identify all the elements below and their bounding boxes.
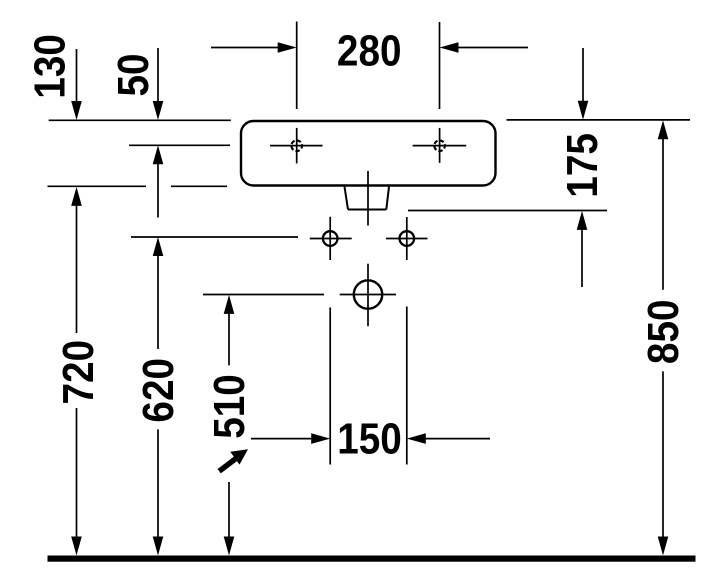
- reference line D (fixing hole level): [131, 236, 298, 238]
- arrowhead 620 down at floor: [153, 537, 164, 556]
- svg-text:130: 130: [24, 34, 74, 99]
- tap hole right crosshair vertical: [439, 128, 441, 163]
- arrowhead 130 down at line A: [71, 101, 82, 120]
- tap hole left crosshair vertical: [296, 128, 298, 163]
- dim 850 line lower part: [662, 371, 664, 538]
- dim 510 line lower part: [228, 482, 230, 539]
- svg-text:50: 50: [107, 53, 157, 96]
- dim 720 line lower part: [76, 408, 78, 539]
- dim 280 arrow tail left: [211, 47, 280, 49]
- fixing hole left crosshair vertical: [329, 217, 331, 260]
- arrowhead 175 down at line A right: [578, 101, 589, 120]
- drain crosshair vertical: [367, 264, 369, 327]
- dim 175 arrow shaft bottom: [581, 228, 583, 287]
- arrowhead 280 right at left extension: [278, 42, 297, 53]
- arrowhead 720 up at line C: [71, 187, 82, 206]
- reference line A right (basin top level): [507, 119, 691, 121]
- basin outline: [241, 121, 496, 186]
- svg-text:620: 620: [133, 358, 183, 423]
- arrowhead 510 down at floor: [224, 537, 235, 556]
- arrowhead 175 up at line F: [577, 211, 588, 230]
- dim 50 arrow shaft bottom: [157, 162, 159, 218]
- dim 280 arrow tail right: [456, 47, 528, 49]
- reference line A left (basin top level): [49, 119, 231, 121]
- fixing hole left crosshair horizontal: [310, 238, 352, 240]
- tap hole left dashed circle: [291, 140, 302, 151]
- dim 150 extension line left: [329, 308, 331, 465]
- drain circle: [354, 280, 382, 308]
- arrowhead 150 left at right extension: [407, 433, 426, 444]
- svg-text:175: 175: [556, 133, 606, 198]
- overflow spout center line: [367, 171, 369, 226]
- overflow spout left side: [345, 187, 349, 210]
- overflow spout bottom edge: [348, 209, 386, 211]
- reference line F (overflow bottom level): [408, 210, 607, 212]
- arrowhead 280 left at right extension: [440, 42, 459, 53]
- arrowhead 850 down at floor: [658, 537, 669, 556]
- svg-text:280: 280: [337, 25, 402, 75]
- tap hole right crosshair horizontal: [413, 145, 467, 147]
- arrowhead 510 up at line E: [224, 295, 235, 314]
- drain direction arrow tail: [219, 459, 235, 471]
- arrowhead 850 up at line A right: [658, 120, 669, 139]
- fixing hole right circle: [400, 231, 415, 246]
- dim 720 line upper part: [76, 204, 78, 333]
- fixing hole right crosshair vertical: [406, 217, 408, 260]
- tap hole right dashed circle: [434, 140, 445, 151]
- dim 150 arrow tail left: [251, 438, 313, 440]
- dim 850 line upper part: [662, 138, 664, 290]
- svg-text:850: 850: [638, 300, 688, 365]
- arrowhead 720 down at floor: [71, 537, 82, 556]
- fixing hole left circle: [323, 231, 338, 246]
- dim 620 line upper part: [157, 255, 159, 349]
- arrowhead 620 up at line D: [153, 237, 164, 256]
- reference line C left (basin bottom level): [48, 185, 147, 187]
- arrowhead 150 right at left extension: [311, 433, 330, 444]
- dim 50 arrow shaft top: [157, 48, 159, 103]
- svg-text:510: 510: [204, 374, 254, 439]
- dim 280 extension line left: [296, 22, 298, 110]
- fixing hole right crosshair horizontal: [386, 238, 428, 240]
- arrowhead 50 down at line A: [153, 101, 164, 120]
- drain direction arrowhead: [230, 449, 248, 464]
- overflow spout right side: [386, 187, 389, 210]
- tap hole left crosshair horizontal: [270, 145, 323, 147]
- dim 130 arrow shaft top: [76, 49, 78, 103]
- drain crosshair horizontal: [340, 294, 396, 296]
- reference line E (drain level): [203, 294, 324, 296]
- floor line: [48, 556, 696, 562]
- dim 280 extension line right: [439, 22, 441, 109]
- dim 510 line upper part: [228, 313, 230, 366]
- dim 150 arrow tail right: [424, 438, 490, 440]
- svg-text:720: 720: [52, 340, 102, 405]
- dim 150 extension line right: [406, 307, 408, 465]
- arrowhead 50 up at line B: [153, 145, 164, 164]
- dim 175 arrow shaft top: [582, 48, 584, 103]
- reference line B (tap hole level): [129, 144, 230, 146]
- reference line C right (basin bottom level): [171, 185, 227, 187]
- svg-text:150: 150: [337, 413, 402, 463]
- dim 620 line lower part: [157, 429, 159, 538]
